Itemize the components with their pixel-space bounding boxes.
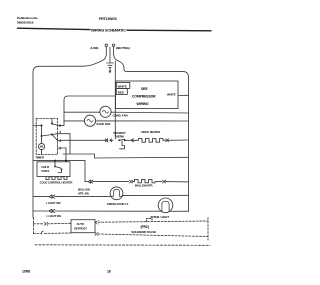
wire terminal 4 to defrost row [70, 139, 104, 141]
connector arrows light row A [49, 195, 110, 198]
wire NEUTRAL prong to right rail [114, 54, 189, 78]
wire compressor RED to node [64, 96, 116, 100]
plug prong NEUTRAL [112, 44, 114, 46]
wire cold line down to heater row [84, 161, 86, 182]
dashed row A right [95, 221, 208, 224]
svg-text:HTR. SW.: HTR. SW. [78, 191, 89, 195]
svg-text:CONT.: CONT. [41, 169, 49, 173]
svg-text:5995314519: 5995314519 [17, 20, 34, 24]
wire left rail (LINE bus) [32, 73, 34, 218]
wire rail to timer contact [33, 125, 42, 127]
svg-text:I. LIGHT SW.: I. LIGHT SW. [47, 214, 62, 218]
defrost thermostat actuator bracket [120, 141, 125, 149]
svg-text:4: 4 [59, 139, 61, 143]
wire bulb B to right rail [173, 210, 189, 212]
svg-text:3: 3 [59, 147, 61, 151]
svg-text:SEE: SEE [141, 87, 148, 91]
wire terminal 3 down to cold control feed [65, 148, 67, 161]
wire bulb A to right rail [123, 194, 189, 196]
wire thermostat to heater [126, 139, 131, 141]
wire NEUTRAL branch down to defrost thermostat [114, 61, 116, 139]
svg-text:DEFROST: DEFROST [114, 131, 127, 135]
svg-text:TIMER: TIMER [35, 156, 45, 160]
plug prong LINE [105, 44, 107, 46]
defrost thermostat S1 [118, 139, 120, 141]
timer terminal 1 [58, 133, 71, 135]
svg-text:I. LIGHT SW.: I. LIGHT SW. [46, 201, 61, 205]
timer terminal 2 [58, 124, 65, 126]
ground symbol [107, 62, 114, 64]
svg-text:WIRING SCHEMATIC: WIRING SCHEMATIC [91, 29, 126, 33]
svg-text:RED: RED [118, 91, 125, 95]
dashed right rail lower [207, 218, 209, 241]
compressor terminal box WHITE [116, 83, 130, 89]
svg-text:MULLION: MULLION [78, 188, 90, 192]
heater row connector arrows [85, 180, 129, 183]
svg-text:COMPRESSOR: COMPRESSOR [132, 95, 156, 99]
wire cond fan to right rail [111, 111, 188, 114]
header rule [18, 28, 91, 29]
timer contact dot C [41, 135, 43, 137]
wire dot A down to motor [41, 126, 43, 144]
freezer light bulb DS2 [158, 198, 173, 213]
freezer light row [33, 210, 49, 212]
svg-text:FRT22NGC: FRT22NGC [99, 17, 118, 21]
svg-text:COLD CONTROL HEATER: COLD CONTROL HEATER [40, 180, 73, 184]
label MULLION HTR. W/L SW. [78, 188, 90, 196]
svg-text:Publication No.: Publication No. [17, 16, 38, 20]
wire vertical feed to timer terminal 2 [63, 100, 65, 125]
defrost timer box (dashed) [36, 119, 57, 155]
fresh food light row [33, 196, 49, 198]
timer motor M3 [38, 143, 44, 149]
svg-text:WIRING: WIRING [137, 102, 149, 106]
junction dot timer drop [65, 160, 67, 162]
dashed row B right [95, 233, 208, 237]
svg-text:EVAP. FAN: EVAP. FAN [97, 122, 111, 126]
svg-text:2: 2 [59, 124, 61, 128]
ground pin [109, 47, 111, 63]
wire compressor to right rail [178, 94, 189, 96]
connector X right of mullion heater [163, 180, 189, 183]
svg-text:THERM.: THERM. [115, 135, 125, 139]
svg-text:DEFR. HEATER: DEFR. HEATER [142, 130, 161, 134]
cold control heater R2 (squiggle under box) [46, 177, 67, 180]
cold control switch S2 [54, 161, 56, 166]
svg-text:SOLENOID VALVE: SOLENOID VALVE [131, 230, 156, 234]
wire right rail (NEUTRAL bus) [188, 78, 190, 212]
wire rail to cold control line [33, 160, 85, 162]
header publication text [17, 16, 126, 33]
connector arrows into heater [131, 139, 135, 142]
junction dot cold feed [54, 160, 56, 162]
wire LINE prong to left rail [33, 54, 106, 73]
wire evap fan to right rail [96, 120, 189, 122]
compressor label text [132, 87, 176, 106]
connector X right of heater [163, 139, 189, 142]
cold control box [37, 162, 70, 177]
defrost heater R1 (squiggle) [135, 139, 164, 143]
timer contact dot B [51, 123, 53, 125]
timer contact dot D [51, 134, 53, 136]
compressor terminal box RED [116, 89, 127, 95]
ADC box [71, 220, 95, 233]
svg-text:(LINE): (LINE) [91, 46, 99, 50]
mullion heater R3 (squiggle) [133, 179, 162, 182]
connector X left of mullion heater [130, 180, 133, 183]
bottom dashed wire [35, 244, 210, 247]
timer terminal 4 [58, 139, 71, 141]
connector row A left [45, 222, 72, 225]
fresh food light bulb DS1 [110, 187, 123, 200]
timer terminal 3 [58, 147, 67, 149]
dashed row B left [34, 231, 72, 236]
wire terminal 1 down join [69, 134, 71, 154]
svg-text:DEFROST: DEFROST [74, 227, 87, 231]
svg-text:18: 18 [107, 269, 111, 273]
svg-text:COND. FAN: COND. FAN [113, 114, 128, 118]
defrost thermostat connector [104, 139, 113, 142]
svg-text:WHITE: WHITE [118, 85, 127, 89]
wire motor to box bottom [41, 150, 43, 155]
wire row from timer to mid jog [63, 154, 189, 158]
svg-text:INTER. LIGHT: INTER. LIGHT [151, 215, 170, 219]
wire condenser fan row [64, 111, 100, 113]
wire evaporator fan row [64, 120, 85, 122]
svg-text:WHITE: WHITE [167, 93, 176, 97]
svg-text:MULLION HTR.: MULLION HTR. [135, 184, 153, 188]
compressor block U1 [116, 81, 179, 109]
timer switch arm bottom [42, 134, 58, 141]
dashed row A left [34, 223, 45, 225]
svg-text:(FRZ): (FRZ) [141, 225, 149, 229]
condenser fan motor M1 [100, 106, 111, 117]
svg-text:(NEUTRAL): (NEUTRAL) [116, 46, 130, 50]
timer contact dot A [41, 125, 43, 127]
dashed left rail lower [33, 218, 35, 234]
solenoid valve jog [147, 219, 153, 222]
timer switch arm top [52, 119, 58, 126]
svg-text:10/98: 10/98 [22, 269, 30, 273]
svg-text:AUTO: AUTO [77, 222, 85, 226]
label DEFROST THERM. [114, 131, 127, 138]
svg-text:FRESH FOOD LT.: FRESH FOOD LT. [107, 202, 129, 206]
connector arrows light row B [49, 209, 159, 212]
evaporator fan motor M2 [84, 115, 95, 126]
